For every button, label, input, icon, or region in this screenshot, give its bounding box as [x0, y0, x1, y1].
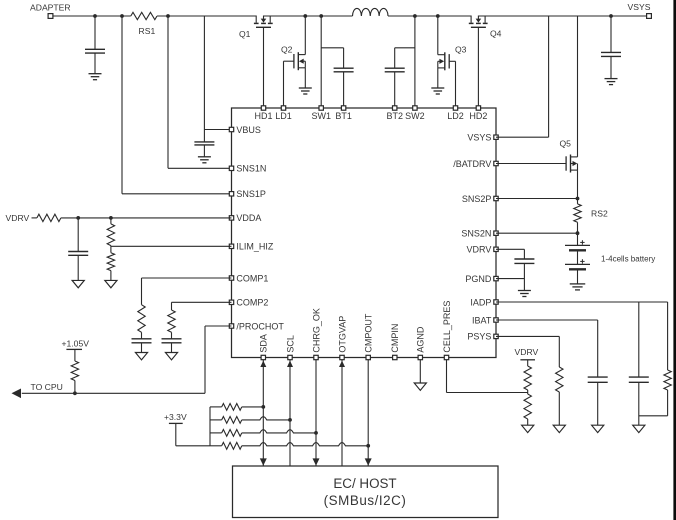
svg-text:LD1: LD1: [275, 111, 292, 121]
svg-text:HD2: HD2: [469, 111, 487, 121]
svg-text:VDRV: VDRV: [6, 213, 30, 223]
svg-text:SDA: SDA: [259, 334, 269, 353]
svg-text:OTGVAP: OTGVAP: [337, 316, 347, 353]
svg-text:CMPOUT: CMPOUT: [364, 313, 374, 352]
svg-text:Q1: Q1: [239, 29, 251, 39]
svg-text:Q5: Q5: [560, 139, 572, 149]
svg-text:COMP1: COMP1: [236, 273, 268, 283]
svg-text:LD2: LD2: [447, 111, 464, 121]
svg-text:PGND: PGND: [465, 274, 492, 284]
svg-text:SNS2N: SNS2N: [461, 229, 491, 239]
svg-text:+1.05V: +1.05V: [62, 338, 90, 348]
svg-text:BT2: BT2: [386, 111, 403, 121]
svg-text:RS1: RS1: [139, 26, 156, 36]
svg-text:CELL_PRES: CELL_PRES: [442, 301, 452, 353]
svg-text:SNS1P: SNS1P: [236, 189, 266, 199]
svg-text:Q2: Q2: [281, 45, 293, 55]
svg-text:VSYS: VSYS: [628, 2, 651, 12]
svg-text:Q4: Q4: [490, 29, 502, 39]
svg-text:VDRV: VDRV: [515, 347, 539, 357]
svg-text:HD1: HD1: [254, 111, 272, 121]
svg-text:EC/ HOST: EC/ HOST: [333, 476, 396, 491]
svg-text:1-4cells battery: 1-4cells battery: [601, 254, 655, 263]
svg-text:+3.3V: +3.3V: [164, 412, 187, 422]
svg-text:CMPIN: CMPIN: [390, 324, 400, 353]
svg-text:(SMBus/I2C): (SMBus/I2C): [324, 493, 407, 508]
svg-text:VBUS: VBUS: [236, 125, 261, 135]
svg-text:SW1: SW1: [311, 111, 331, 121]
svg-text:COMP2: COMP2: [236, 298, 268, 308]
svg-text:SNS2P: SNS2P: [462, 194, 492, 204]
svg-text:IADP: IADP: [470, 297, 491, 307]
svg-text:CHRG_OK: CHRG_OK: [311, 308, 321, 353]
svg-text:/BATDRV: /BATDRV: [453, 159, 491, 169]
svg-text:PSYS: PSYS: [467, 332, 491, 342]
svg-text:VSYS: VSYS: [467, 133, 491, 143]
svg-text:RS2: RS2: [591, 208, 608, 218]
svg-text:BT1: BT1: [335, 111, 352, 121]
svg-text:AGND: AGND: [416, 326, 426, 353]
svg-text:SW2: SW2: [405, 111, 425, 121]
svg-text:VDDA: VDDA: [236, 213, 261, 223]
svg-text:Q3: Q3: [455, 45, 467, 55]
svg-text:IBAT: IBAT: [472, 315, 492, 325]
svg-text:/PROCHOT: /PROCHOT: [236, 321, 284, 331]
svg-text:VDRV: VDRV: [467, 245, 492, 255]
svg-text:SNS1N: SNS1N: [236, 164, 266, 174]
svg-text:TO CPU: TO CPU: [31, 382, 63, 392]
svg-text:ILIM_HIZ: ILIM_HIZ: [236, 242, 274, 252]
svg-text:SCL: SCL: [285, 335, 295, 353]
svg-text:ADAPTER: ADAPTER: [30, 3, 71, 13]
